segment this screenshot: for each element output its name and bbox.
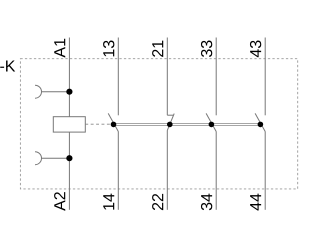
svg-text:21: 21 bbox=[150, 40, 167, 58]
dashed outline border of contactor -K bbox=[20, 59, 297, 189]
coil terminal arc A1 bbox=[35, 85, 42, 98]
NC contact 21-22 fixed stub bbox=[167, 114, 173, 116]
svg-text:-K: -K bbox=[0, 58, 16, 75]
mechanical linkage double line upper bbox=[114, 122, 261, 124]
NO contact 13-14 moving blade bbox=[108, 113, 118, 131]
wire A2 (coil to bottom) bbox=[68, 132, 70, 210]
wire 21 (top terminal) bbox=[166, 38, 168, 116]
svg-text:44: 44 bbox=[248, 193, 265, 211]
svg-text:33: 33 bbox=[199, 40, 216, 58]
svg-text:43: 43 bbox=[248, 40, 265, 58]
NO contact 33-34 moving blade bbox=[206, 113, 216, 131]
device label -K bbox=[0, 58, 16, 75]
wire 33 (top terminal) bbox=[215, 38, 217, 116]
svg-text:34: 34 bbox=[199, 193, 216, 211]
wire from arc A1 to node bbox=[42, 91, 70, 93]
wire 13 (top terminal) bbox=[117, 38, 119, 116]
coil K1 (operating coil A1-A2) bbox=[53, 117, 85, 132]
junction dot linkage at contact 43-44 bbox=[258, 122, 264, 128]
wire 44 (bottom terminal) bbox=[264, 132, 266, 210]
wire 14 (bottom terminal) bbox=[117, 132, 119, 210]
NC contact 21-22 moving blade bbox=[167, 114, 174, 131]
NO contact 43-44 moving blade bbox=[255, 113, 265, 131]
junction dot linkage at contact 33-34 bbox=[209, 122, 215, 128]
wire 43 (top terminal) bbox=[264, 38, 266, 116]
svg-text:A1: A1 bbox=[52, 38, 69, 58]
junction dot linkage at contact 13-14 bbox=[111, 122, 117, 128]
wire 22 (bottom terminal) bbox=[166, 130, 168, 209]
mechanical linkage dashed link from coil to contact 13-14 bbox=[85, 123, 113, 125]
svg-text:13: 13 bbox=[101, 40, 118, 58]
svg-text:14: 14 bbox=[101, 193, 118, 211]
mechanical linkage double line lower bbox=[114, 125, 261, 127]
junction dot node A2 bbox=[66, 155, 72, 161]
wire 34 (bottom terminal) bbox=[215, 132, 217, 210]
wire from arc A2 to node bbox=[42, 157, 70, 159]
svg-text:A2: A2 bbox=[52, 191, 69, 211]
junction dot linkage at contact 21-22 bbox=[167, 122, 173, 128]
svg-text:22: 22 bbox=[150, 193, 167, 211]
junction dot node A1 bbox=[66, 89, 72, 95]
wire A1 (top, into coil) bbox=[68, 38, 70, 117]
coil terminal arc A2 bbox=[35, 152, 42, 165]
